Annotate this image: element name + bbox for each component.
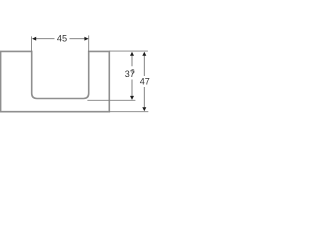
dimension 45 arrow right — [84, 37, 88, 41]
dimension 37.5 arrow bottom — [130, 96, 134, 100]
dimension 37.5 line upper segment — [131, 55, 133, 67]
dimension 47 line lower segment — [143, 87, 145, 108]
dimension 37.5 line lower segment — [131, 80, 133, 97]
extension line right (above cutout right edge) — [88, 35, 90, 52]
dimension 47 line upper segment — [143, 55, 145, 76]
extension line left (above cutout left edge) — [31, 36, 33, 52]
dimension 45 line left segment — [36, 38, 55, 40]
dimension 45 arrow left — [32, 37, 36, 41]
dimension 47 arrow bottom — [142, 107, 146, 111]
extension line top right — [109, 50, 148, 52]
extension line cutout bottom — [87, 99, 135, 101]
dimension 47 arrow top — [142, 52, 146, 56]
dimension 45 line right segment — [70, 38, 86, 40]
countertop slab outline with U-shaped cutout — [1, 51, 110, 111]
svg-text:45: 45 — [57, 34, 67, 44]
dimension 37.5 arrow top — [130, 52, 134, 56]
extension line bottom right — [109, 111, 148, 113]
svg-text:47: 47 — [140, 76, 150, 86]
